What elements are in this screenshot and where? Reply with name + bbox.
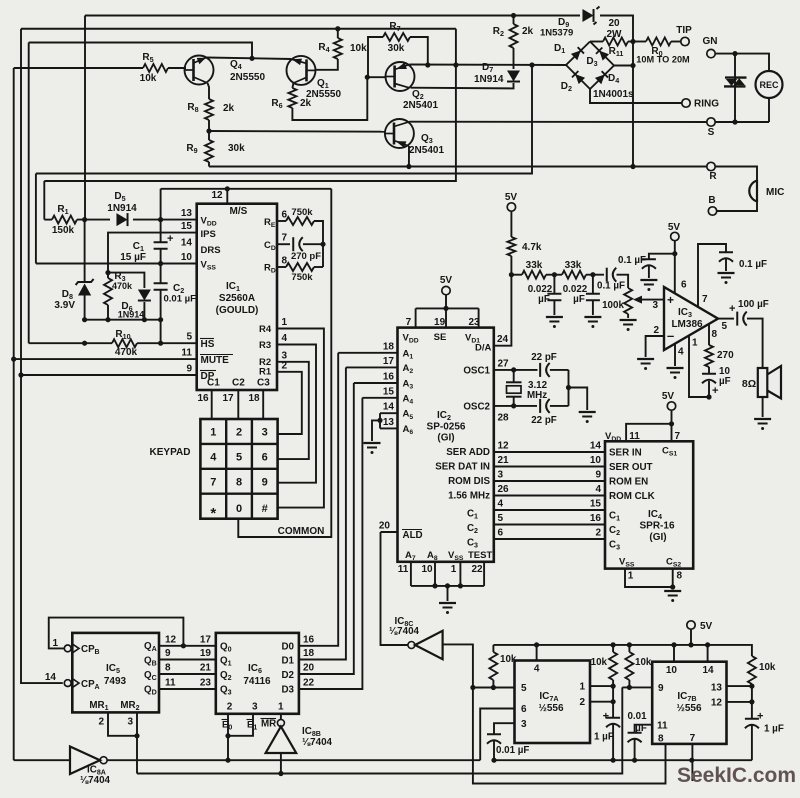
wire OSC1 (494, 369, 538, 371)
svg-text:0: 0 (236, 503, 242, 515)
svg-text:4: 4 (595, 484, 601, 495)
svg-text:23: 23 (200, 678, 212, 689)
wire to R1 (44, 219, 52, 221)
wire between 33k (546, 274, 562, 276)
wire 1uF to rail (612, 725, 614, 761)
node feedback (320, 242, 325, 247)
svg-text:2k: 2k (223, 103, 235, 114)
wire left rail x21 to CPA (21, 29, 63, 683)
node R2 top (511, 13, 516, 18)
wire line-B to node (44, 65, 456, 181)
svg-text:SP-0256: SP-0256 (427, 422, 466, 433)
diode D7 1N914 (507, 70, 520, 81)
IC1 pins 16 17 18 to keypad columns (211, 390, 213, 419)
wire pot bottom (627, 314, 629, 318)
svg-text:+: + (712, 385, 718, 397)
wire keypad COMMON (238, 189, 331, 537)
svg-text:11: 11 (165, 678, 176, 689)
wire cap2 to gnd (592, 301, 594, 316)
node OSC2 (511, 403, 516, 408)
svg-text:5V: 5V (668, 222, 681, 233)
svg-text:16: 16 (590, 513, 602, 524)
capacitor 22pF top (539, 363, 541, 377)
svg-text:SER DAT IN: SER DAT IN (435, 462, 490, 473)
svg-text:5: 5 (236, 451, 242, 463)
wire 5V stub (690, 629, 692, 645)
IC7B half 556 timer (652, 662, 726, 744)
svg-text:µF: µF (719, 376, 731, 387)
svg-text:3: 3 (521, 719, 527, 730)
svg-text:+: + (757, 711, 763, 723)
wire left rail x85 (84, 16, 86, 220)
receiver REC (756, 71, 783, 98)
svg-text:12: 12 (498, 441, 510, 452)
svg-text:–: – (667, 328, 674, 343)
svg-text:1: 1 (579, 682, 585, 693)
svg-text:+: + (729, 303, 735, 315)
wire speaker to gnd (762, 397, 764, 417)
node 10k3 pin9 (627, 685, 632, 690)
op-amp IC3 LM386 (664, 287, 718, 350)
svg-text:750k: 750k (291, 272, 313, 283)
svg-text:18: 18 (248, 393, 260, 404)
svg-text:1N4001s: 1N4001s (593, 89, 634, 100)
wire IPS pin15 to R3 (108, 233, 197, 278)
capacitor 22pF bottom (539, 399, 541, 413)
wire enables to rail (227, 736, 229, 760)
node pin1 10uF (706, 394, 711, 399)
ground 0.022 first (546, 316, 563, 318)
svg-text:6: 6 (681, 280, 687, 291)
svg-text:3: 3 (127, 717, 133, 728)
wire Q4 emitter to R8 (208, 83, 210, 99)
wire pin7 stub (415, 308, 417, 327)
svg-text:9: 9 (165, 648, 171, 659)
node HS C2 branch (158, 341, 163, 346)
wire D0 to A1 (299, 353, 338, 646)
wire 750k2 right (314, 266, 323, 268)
svg-text:S2560A: S2560A (219, 293, 255, 304)
wire R1 to D5 (77, 219, 110, 221)
svg-text:26: 26 (498, 484, 510, 495)
wire R3 pin to keypad row3 (277, 345, 316, 483)
IC6 74116 latch (216, 633, 299, 714)
svg-text:REC: REC (759, 80, 779, 90)
svg-text:0.1 µF: 0.1 µF (597, 281, 625, 292)
node first RC (552, 272, 557, 277)
svg-text:9: 9 (262, 476, 268, 488)
node triac top (732, 51, 737, 56)
svg-text:SPR-16: SPR-16 (639, 521, 674, 532)
svg-text:4: 4 (210, 451, 217, 463)
svg-text:1: 1 (278, 702, 284, 713)
svg-text:9: 9 (595, 470, 601, 481)
svg-text:µF: µF (538, 294, 550, 305)
svg-text:3.9V: 3.9V (54, 300, 75, 311)
wire QD to Q3 (159, 688, 216, 690)
svg-text:6: 6 (262, 451, 268, 463)
svg-text:13: 13 (383, 417, 395, 428)
node R line vertical (630, 164, 635, 169)
svg-text:11: 11 (181, 348, 192, 359)
capacitor C1 15uF (154, 241, 168, 243)
wire cap gnd (648, 266, 650, 278)
IC2 SP-0256 GI speech processor (398, 328, 494, 562)
svg-text:1: 1 (282, 317, 288, 328)
wire D6 bottom (143, 302, 145, 320)
svg-text:D0: D0 (281, 642, 294, 653)
node IPS R3 D6 (105, 270, 110, 275)
svg-text:2: 2 (579, 697, 585, 708)
wire pin4 stub (536, 645, 538, 661)
svg-text:µF: µF (635, 723, 647, 734)
svg-text:R: R (709, 171, 717, 182)
potentiometer 100k (624, 288, 632, 314)
svg-text:16: 16 (197, 393, 209, 404)
svg-text:8: 8 (712, 329, 718, 340)
svg-text:5: 5 (521, 683, 527, 694)
svg-text:12: 12 (211, 190, 223, 201)
wire cap right (550, 369, 569, 371)
wire coupling to pot (617, 275, 629, 288)
ground speaker (754, 418, 771, 420)
wire R3 bottom (107, 305, 109, 320)
node Q3 collector (406, 164, 411, 169)
svg-text:5: 5 (722, 321, 728, 332)
wire R11 right (628, 41, 633, 43)
svg-text:10: 10 (666, 665, 678, 676)
wire cap right (303, 243, 323, 245)
svg-text:2: 2 (98, 717, 104, 728)
svg-text:270: 270 (717, 350, 734, 361)
svg-text:1.56 MHz: 1.56 MHz (448, 491, 490, 502)
wire pin6 from IC8A rail (480, 709, 514, 761)
wire 10k2 down (612, 680, 614, 718)
svg-text:33k: 33k (565, 260, 582, 271)
IC7A half 556 timer (515, 661, 591, 744)
wire R10 to pin5 (137, 342, 197, 344)
svg-text:IPS: IPS (201, 229, 216, 240)
wire R to MIC (715, 167, 757, 181)
resistor 10k fourth (750, 645, 752, 656)
svg-text:14: 14 (45, 672, 57, 683)
terminal GN (707, 49, 715, 57)
wire GN to REC top (715, 54, 769, 71)
node pin5 junction (470, 685, 475, 690)
svg-text:2: 2 (595, 528, 601, 539)
svg-text:ROM DIS: ROM DIS (448, 476, 490, 487)
svg-text:11: 11 (629, 431, 640, 442)
node second RC (590, 272, 595, 277)
node triac bottom (732, 119, 737, 124)
node R7 right (425, 62, 430, 67)
svg-text:0.1 µF: 0.1 µF (739, 259, 767, 270)
transistor Q4 2N5550 symbol (185, 56, 214, 85)
node R11 vertical (630, 39, 635, 44)
svg-text:SeekIC.com: SeekIC.com (677, 764, 796, 787)
svg-text:14: 14 (702, 665, 714, 676)
wire R5 left (14, 67, 143, 69)
svg-text:20: 20 (379, 521, 391, 532)
wire A5 A6 to ground (380, 412, 398, 414)
svg-text:1: 1 (210, 427, 216, 439)
svg-text:15: 15 (181, 221, 193, 232)
svg-text:TIP: TIP (676, 25, 692, 36)
resistor 10k third (628, 645, 630, 652)
wire bottom rail right section (494, 759, 752, 761)
svg-text:470k: 470k (112, 281, 133, 291)
wire down to IC7B pin8 (473, 688, 666, 784)
wire pin4 ground (674, 344, 676, 366)
terminal 5V filter (507, 203, 515, 211)
svg-text:14: 14 (590, 441, 602, 452)
svg-text:+: + (667, 293, 674, 307)
svg-text:2k: 2k (522, 26, 534, 37)
svg-text:28: 28 (498, 413, 510, 424)
svg-text:B: B (708, 195, 715, 206)
wire R4 to Q1 base (316, 59, 338, 70)
pot wiper arrow to LM386 + (640, 299, 664, 301)
terminal 5V IC4 circle (667, 402, 675, 410)
svg-text:9: 9 (186, 364, 192, 375)
svg-text:8: 8 (677, 571, 683, 582)
wire left rail x29 to HS (28, 43, 30, 344)
wire common bottom node (85, 319, 161, 321)
ground IC4 (664, 590, 681, 592)
svg-text:COMMON: COMMON (278, 526, 325, 537)
wire DP pin9 (21, 374, 197, 376)
wire cap2 right (550, 405, 569, 407)
wire D5 to IC1 pin13 (133, 219, 197, 221)
svg-text:21: 21 (498, 455, 510, 466)
svg-text:0.1 µF: 0.1 µF (618, 255, 646, 266)
svg-text:+: + (603, 711, 609, 723)
svg-text:15 µF: 15 µF (120, 252, 146, 263)
svg-text:2: 2 (227, 702, 233, 713)
svg-text:SER ADD: SER ADD (446, 447, 490, 458)
svg-text:D2: D2 (281, 670, 294, 681)
svg-text:18: 18 (303, 648, 315, 659)
capacitor 0.01uF IC7B (628, 732, 642, 734)
svg-text:1N914: 1N914 (118, 310, 145, 320)
wire R9 bottom (208, 162, 210, 167)
svg-text:10k: 10k (635, 657, 652, 668)
svg-text:17: 17 (222, 393, 234, 404)
inverter IC8C (408, 642, 415, 649)
svg-text:MIC: MIC (766, 187, 784, 198)
wire 10k4 down (751, 684, 753, 719)
wire D3 to A4 (299, 398, 363, 689)
IC1 pin12 M/S stub (226, 189, 228, 204)
wire bridge top to R11 (590, 41, 603, 43)
capacitor 1uF second (745, 718, 759, 720)
wire IC8A output rail (107, 759, 480, 761)
svg-text:10k: 10k (591, 657, 608, 668)
svg-text:C1: C1 (207, 378, 220, 389)
svg-text:1: 1 (692, 338, 698, 349)
wire R8 bottom (208, 120, 210, 131)
svg-text:8Ω: 8Ω (742, 378, 756, 390)
diode D5 1N914 (116, 213, 127, 226)
diode D9 1N5379 zener (582, 9, 593, 22)
svg-text:2N5401: 2N5401 (403, 100, 438, 111)
wire R6 bottom to Q2 base node (292, 77, 367, 120)
wire pin6 (277, 220, 286, 222)
wire D1 to A2 (299, 367, 346, 659)
svg-text:16: 16 (383, 372, 395, 383)
wire QA to Q0 (159, 645, 216, 647)
svg-text:GN: GN (703, 36, 718, 47)
svg-text:21: 21 (200, 663, 212, 674)
wire MIC to B (717, 202, 757, 211)
ground pot (620, 319, 637, 321)
terminal 5V 556 (687, 621, 695, 629)
wire 33k2 right (586, 274, 604, 276)
svg-text:17: 17 (200, 634, 212, 645)
svg-text:0: 0 (228, 725, 232, 732)
svg-text:0.01 µF: 0.01 µF (496, 745, 529, 756)
svg-text:1: 1 (451, 564, 457, 575)
svg-text:LM386: LM386 (671, 319, 703, 330)
wire Q3 collector down (408, 146, 410, 167)
wire line-B down to R1 (43, 181, 45, 220)
wire LM386 pin7 bypass (698, 244, 726, 307)
wire Q1 emitter to R6 (292, 83, 293, 88)
wire 10uF bottom (708, 381, 710, 397)
svg-text:20: 20 (608, 18, 620, 29)
wire pin9 (622, 686, 652, 688)
node IC2 top (443, 306, 448, 311)
node HS D8 branch (82, 341, 87, 346)
wire QC to Q2 (159, 673, 216, 675)
svg-text:19: 19 (434, 317, 446, 328)
terminal R (707, 162, 715, 170)
svg-text:D1: D1 (281, 656, 294, 667)
wire D7 bottom to Q2 emitter (411, 83, 514, 88)
node 10k pin5 (491, 685, 496, 690)
svg-text:OSC2: OSC2 (463, 402, 490, 413)
node cap rail (491, 758, 496, 763)
capacitor 0.1uF decouple left (649, 254, 675, 259)
svg-text:23: 23 (468, 317, 480, 328)
wire pin1 pin2 to 10k2 (590, 685, 613, 687)
terminal 5V pin6 (671, 232, 679, 240)
speaker 8 ohm (758, 368, 768, 397)
svg-text:7: 7 (282, 233, 288, 244)
svg-text:30k: 30k (388, 43, 405, 54)
svg-text:MUTE: MUTE (201, 355, 230, 366)
wire 5V to 4.7k (510, 211, 512, 237)
resistor 10k first (492, 645, 494, 652)
node QA loop (181, 643, 186, 648)
svg-text:4: 4 (282, 333, 288, 344)
wire bridge edge D1 (566, 42, 590, 66)
svg-text:24: 24 (497, 334, 509, 345)
wire reset rail bottom (137, 687, 622, 773)
protection diode pair symbol (725, 76, 747, 78)
wire C2 down to HS line (160, 290, 162, 343)
svg-text:CP: CP (81, 644, 95, 655)
svg-text:2N5550: 2N5550 (306, 89, 341, 100)
wire REC bottom (768, 98, 770, 122)
svg-text:ROM EN: ROM EN (609, 477, 648, 488)
svg-text:13: 13 (711, 683, 723, 694)
terminal B (708, 207, 716, 215)
svg-text:6: 6 (498, 528, 504, 539)
capacitor C2 0.01uF (154, 282, 168, 284)
diode D1 (571, 47, 584, 60)
svg-text:TEST: TEST (468, 550, 492, 561)
wire IC8C input (443, 644, 473, 687)
node C1 VSS (158, 261, 163, 266)
keypad 12-key matrix (200, 419, 277, 519)
svg-text:2k: 2k (300, 98, 312, 109)
svg-text:2N5401: 2N5401 (409, 145, 444, 156)
wire HS line left (29, 342, 112, 344)
svg-text:12: 12 (711, 698, 723, 709)
ground 0.1 pin7 (718, 272, 735, 274)
svg-text:HS: HS (201, 339, 215, 350)
terminal 5V IC2 (442, 286, 450, 294)
wire VSS line pin10 (36, 263, 197, 265)
wire R4 top (337, 29, 339, 38)
wire 10k3 bottom (628, 680, 630, 687)
ground pin2 (637, 358, 654, 360)
wire cap to gnd (553, 301, 555, 316)
svg-text:ALD: ALD (403, 530, 423, 541)
capacitor 0.1uF pin7 (719, 251, 733, 253)
svg-text:4: 4 (498, 499, 504, 510)
wire IC8B input (280, 753, 282, 774)
node bridge right (630, 63, 635, 68)
svg-text:22: 22 (471, 564, 483, 575)
svg-text:9: 9 (658, 683, 664, 694)
svg-text:E: E (247, 720, 253, 730)
wire pin23 stub (478, 308, 480, 327)
svg-text:270 pF: 270 pF (291, 251, 321, 262)
node OSC1 (511, 367, 516, 372)
wire R line right (633, 166, 707, 168)
wire pin11 to 0.01uF (635, 725, 653, 733)
svg-text:SE: SE (434, 332, 447, 343)
IC4 SPR-16 GI serial ROM (605, 441, 693, 568)
wire to ground (447, 586, 449, 601)
IC6 E0 E1 enables (227, 714, 229, 736)
wire 5V to CS1 (671, 410, 673, 441)
resistor R5 10k (143, 64, 168, 72)
diode D3 (596, 47, 609, 60)
wire 750k to vertical (314, 221, 323, 267)
wire D2 to A3 (299, 383, 354, 674)
wire to gnd (725, 259, 727, 271)
node E0 E1 (225, 733, 230, 738)
svg-text:10: 10 (590, 455, 602, 466)
node R8-R9 (206, 128, 211, 133)
svg-text:15: 15 (590, 499, 602, 510)
IC5 CPB input (64, 645, 71, 652)
wire Q4 collector to Q1 (207, 58, 292, 60)
svg-text:5V: 5V (662, 391, 675, 402)
wire bridge edge D2 (566, 65, 590, 89)
node cap2 rail (632, 758, 637, 763)
svg-text:⅛7404: ⅛7404 (80, 775, 111, 786)
wire third rail to Q4 collector node (29, 43, 252, 59)
node MR join (134, 733, 139, 738)
svg-text:10k: 10k (759, 662, 776, 673)
svg-text:0.01: 0.01 (627, 711, 647, 722)
svg-text:4: 4 (678, 347, 684, 358)
svg-text:22 pF: 22 pF (531, 415, 557, 426)
